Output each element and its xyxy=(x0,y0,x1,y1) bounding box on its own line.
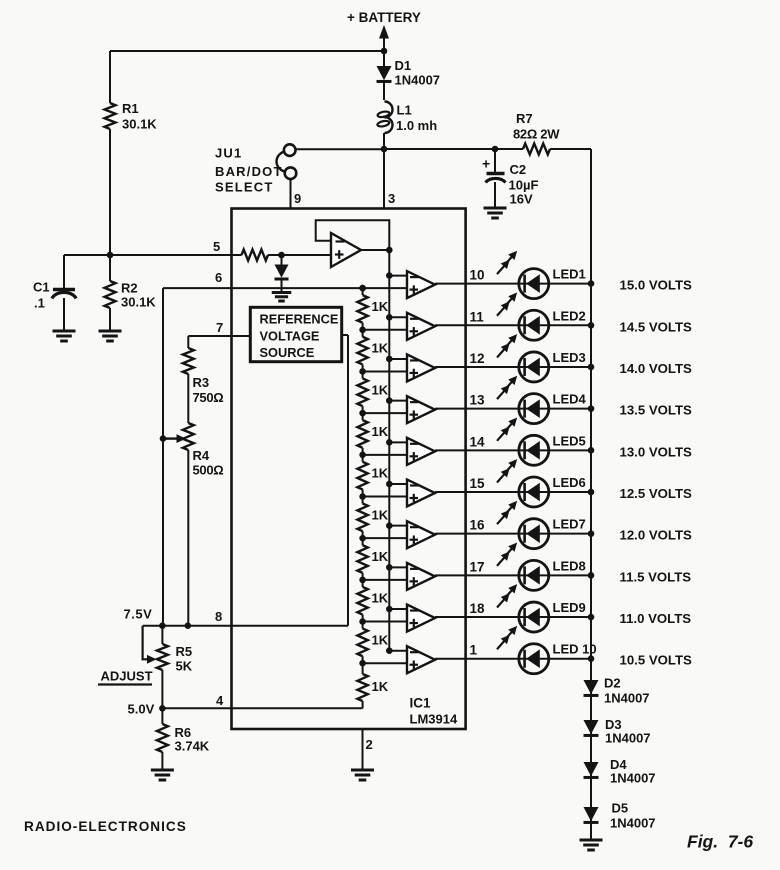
svg-text:6: 6 xyxy=(215,270,222,285)
svg-text:12.0 VOLTS: 12.0 VOLTS xyxy=(620,528,693,543)
svg-text:15.0 VOLTS: 15.0 VOLTS xyxy=(620,278,693,293)
svg-text:R4: R4 xyxy=(193,448,210,463)
svg-text:LED7: LED7 xyxy=(553,517,586,532)
svg-text:11.0 VOLTS: 11.0 VOLTS xyxy=(620,611,692,626)
svg-text:LM3914: LM3914 xyxy=(410,712,458,727)
svg-text:D2: D2 xyxy=(604,676,621,691)
svg-text:LED8: LED8 xyxy=(553,558,586,573)
svg-text:1N4007: 1N4007 xyxy=(395,73,441,88)
svg-text:5: 5 xyxy=(213,239,220,254)
svg-text:16: 16 xyxy=(470,518,486,533)
svg-text:C2: C2 xyxy=(510,162,527,177)
svg-text:1K: 1K xyxy=(372,299,389,314)
svg-text:BAR/DOT: BAR/DOT xyxy=(215,164,283,179)
svg-text:LED5: LED5 xyxy=(553,433,586,448)
svg-text:11.5 VOLTS: 11.5 VOLTS xyxy=(620,569,692,584)
svg-text:RADIO-ELECTRONICS: RADIO-ELECTRONICS xyxy=(24,819,187,834)
svg-text:5.0V: 5.0V xyxy=(128,702,155,717)
svg-text:D5: D5 xyxy=(612,801,629,816)
svg-text:+ BATTERY: + BATTERY xyxy=(347,10,421,25)
svg-text:R3: R3 xyxy=(193,375,210,390)
svg-text:1N4007: 1N4007 xyxy=(610,816,656,831)
svg-text:14: 14 xyxy=(470,434,486,449)
svg-text:13: 13 xyxy=(470,393,486,408)
svg-text:1K: 1K xyxy=(372,549,389,564)
svg-text:750Ω: 750Ω xyxy=(193,390,224,405)
svg-text:+: + xyxy=(482,156,490,172)
svg-text:LED4: LED4 xyxy=(553,392,587,407)
svg-text:17: 17 xyxy=(470,559,485,574)
svg-text:500Ω: 500Ω xyxy=(193,463,224,478)
svg-text:1K: 1K xyxy=(372,507,389,522)
svg-text:LED2: LED2 xyxy=(553,308,586,323)
svg-text:Fig. 7-6: Fig. 7-6 xyxy=(687,832,753,852)
svg-text:1N4007: 1N4007 xyxy=(605,731,651,746)
svg-text:IC1: IC1 xyxy=(410,696,432,711)
svg-text:1K: 1K xyxy=(372,591,389,606)
svg-text:16V: 16V xyxy=(510,192,533,207)
svg-text:C1: C1 xyxy=(33,280,50,295)
svg-text:13.0 VOLTS: 13.0 VOLTS xyxy=(620,444,693,459)
svg-text:1N4007: 1N4007 xyxy=(610,771,656,786)
svg-text:JU1: JU1 xyxy=(215,146,242,161)
svg-text:3: 3 xyxy=(388,191,395,206)
svg-text:15: 15 xyxy=(470,476,486,491)
svg-text:18: 18 xyxy=(470,601,486,616)
svg-text:SELECT: SELECT xyxy=(215,180,273,195)
svg-text:82Ω 2W: 82Ω 2W xyxy=(513,127,560,142)
svg-text:12.5 VOLTS: 12.5 VOLTS xyxy=(620,486,693,501)
svg-text:R7: R7 xyxy=(516,111,533,126)
svg-text:R1: R1 xyxy=(122,101,139,116)
svg-text:3.74K: 3.74K xyxy=(175,739,210,754)
svg-text:1: 1 xyxy=(470,643,478,658)
svg-text:1K: 1K xyxy=(372,679,389,694)
svg-text:10µF: 10µF xyxy=(509,178,539,193)
svg-text:LED 10: LED 10 xyxy=(553,642,597,657)
svg-text:7: 7 xyxy=(216,320,223,335)
svg-text:5K: 5K xyxy=(176,659,193,674)
svg-text:30.1K: 30.1K xyxy=(122,117,157,132)
svg-text:13.5 VOLTS: 13.5 VOLTS xyxy=(620,403,693,418)
svg-text:VOLTAGE: VOLTAGE xyxy=(260,329,320,344)
svg-text:8: 8 xyxy=(215,609,222,624)
svg-text:12: 12 xyxy=(470,351,485,366)
svg-text:1N4007: 1N4007 xyxy=(604,691,650,706)
svg-text:ADJUST: ADJUST xyxy=(101,669,153,684)
svg-text:LED3: LED3 xyxy=(553,350,586,365)
svg-text:1K: 1K xyxy=(372,382,389,397)
svg-text:D1: D1 xyxy=(395,58,412,73)
svg-text:LED9: LED9 xyxy=(553,600,586,615)
svg-text:9: 9 xyxy=(294,191,301,206)
svg-text:R2: R2 xyxy=(121,281,138,296)
svg-text:R5: R5 xyxy=(176,644,193,659)
svg-text:LED6: LED6 xyxy=(553,475,586,490)
svg-text:SOURCE: SOURCE xyxy=(260,345,315,360)
svg-text:1K: 1K xyxy=(372,632,389,647)
svg-text:2: 2 xyxy=(366,737,373,752)
svg-text:L1: L1 xyxy=(397,103,412,118)
svg-text:.1: .1 xyxy=(34,296,45,311)
svg-text:11: 11 xyxy=(470,309,485,324)
svg-text:4: 4 xyxy=(216,693,224,708)
svg-text:REFERENCE: REFERENCE xyxy=(260,312,339,327)
svg-text:10: 10 xyxy=(470,268,485,283)
svg-text:1K: 1K xyxy=(372,341,389,356)
svg-text:30.1K: 30.1K xyxy=(121,295,156,310)
svg-text:7.5V: 7.5V xyxy=(124,607,153,622)
svg-text:LED1: LED1 xyxy=(553,267,586,282)
svg-text:14.5 VOLTS: 14.5 VOLTS xyxy=(620,319,693,334)
svg-text:1K: 1K xyxy=(372,466,389,481)
svg-text:1K: 1K xyxy=(372,424,389,439)
svg-text:1.0 mh: 1.0 mh xyxy=(396,118,437,133)
svg-text:14.0 VOLTS: 14.0 VOLTS xyxy=(620,361,693,376)
svg-text:10.5 VOLTS: 10.5 VOLTS xyxy=(620,653,693,668)
